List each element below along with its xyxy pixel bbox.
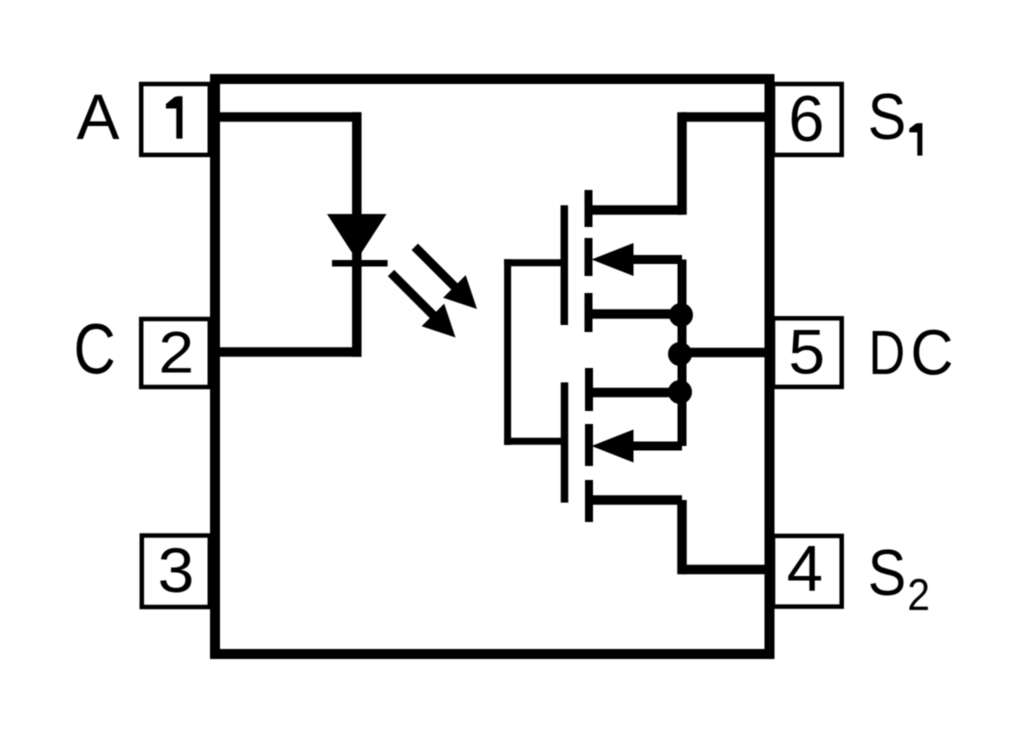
wire Q1 source up to pin6 (vertical) xyxy=(677,112,687,215)
svg-text:S: S xyxy=(868,536,906,609)
MOSFET Q1 drain tap wire xyxy=(588,309,682,319)
svg-text:5: 5 xyxy=(788,317,825,387)
wire to pin4 (horizontal) xyxy=(682,565,770,575)
terminal label DC (drain common) xyxy=(868,318,953,389)
svg-text:6: 6 xyxy=(788,82,824,155)
pin number 1 xyxy=(166,96,183,138)
pin box 3 xyxy=(142,536,210,608)
svg-text:A: A xyxy=(77,81,120,153)
MOSFET Q2 channel body segment xyxy=(585,424,593,466)
IC body outline xyxy=(215,79,770,654)
junction dot middle xyxy=(668,342,692,366)
MOSFET Q2 source tap wire xyxy=(589,495,682,505)
light emission arrow upper xyxy=(415,247,477,309)
MOSFET Q1 body-diode arrow xyxy=(592,243,683,276)
terminal label S2 (source 2) xyxy=(868,536,930,620)
svg-text:C: C xyxy=(911,318,954,389)
wire LED cathode (vertical) xyxy=(352,263,362,357)
MOSFET Q1 source tap wire xyxy=(588,205,682,215)
junction dot upper xyxy=(669,303,693,327)
wire to pin5 DC (horizontal) xyxy=(680,348,770,358)
gate wire to Q2 (horizontal) xyxy=(504,438,568,445)
MOSFET Q2 body-diode arrow xyxy=(592,430,683,463)
light emission arrow lower xyxy=(391,273,456,338)
junction dot lower xyxy=(668,380,692,404)
MOSFET Q1 channel source segment xyxy=(585,190,593,227)
wire Q2 source down to pin4 (vertical) xyxy=(677,500,687,574)
wire to pin6 (horizontal) xyxy=(682,112,770,122)
pin box 1 xyxy=(141,84,210,155)
common drain bus wire (vertical) xyxy=(678,260,687,447)
svg-text:2: 2 xyxy=(907,570,930,620)
MOSFET Q1 channel body segment xyxy=(585,238,593,276)
pin box 6 xyxy=(773,84,842,155)
svg-text:C: C xyxy=(74,309,116,389)
svg-text:2: 2 xyxy=(159,320,195,385)
MOSFET Q1 channel drain segment xyxy=(585,293,593,332)
gate wire to Q1 (horizontal) xyxy=(504,259,568,266)
terminal label S1 (source 1) xyxy=(868,80,923,156)
wire pin1 to LED anode (horizontal) xyxy=(212,112,361,122)
common gate wire vertical xyxy=(504,259,511,445)
pin box 2 xyxy=(141,319,210,387)
svg-text:4: 4 xyxy=(787,531,823,604)
MOSFET Q2 drain tap wire xyxy=(589,388,682,398)
svg-text:D: D xyxy=(868,319,905,388)
LED D1 cathode bar xyxy=(332,260,388,267)
wire LED anode (vertical) xyxy=(352,112,362,261)
MOSFET Q1 gate plate xyxy=(561,205,569,325)
svg-text:S: S xyxy=(868,80,906,153)
MOSFET Q2 gate plate xyxy=(561,382,569,502)
MOSFET Q2 channel source segment xyxy=(585,480,593,522)
svg-text:3: 3 xyxy=(158,534,195,606)
MOSFET Q2 channel drain segment xyxy=(585,368,593,411)
pin box 4 xyxy=(773,536,842,607)
pin box 5 xyxy=(773,318,842,387)
wire LED cathode to pin2 (horizontal) xyxy=(212,347,362,357)
LED D1 anode triangle xyxy=(327,214,387,260)
